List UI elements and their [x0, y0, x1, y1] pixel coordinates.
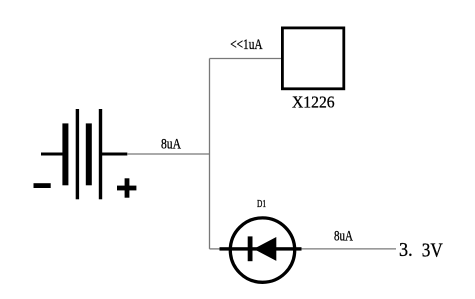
wire diode to 3.3V: [301, 248, 397, 250]
battery plus label: [117, 178, 136, 197]
svg-text:D1: D1: [257, 199, 266, 210]
svg-text:3.: 3.: [399, 239, 413, 261]
battery left lead: [41, 153, 64, 156]
IC U1 X1226 box: [282, 28, 343, 89]
battery cell plate (thin tall 2): [99, 109, 102, 199]
battery right lead: [102, 153, 127, 156]
battery cell plate (thick short 2): [86, 123, 92, 185]
battery cell plate (thick short 1): [62, 123, 68, 185]
wire battery to junction: [127, 153, 210, 155]
svg-text:<<1uA: <<1uA: [230, 37, 263, 53]
svg-text:8uA: 8uA: [334, 228, 353, 244]
svg-text:3V: 3V: [422, 239, 443, 261]
wire to X1226: [210, 58, 282, 60]
battery cell plate (thin tall 1): [76, 109, 79, 199]
battery minus label: [34, 183, 51, 188]
svg-text:8uA: 8uA: [161, 137, 181, 153]
wire junction to diode: [210, 248, 221, 250]
wire vertical bus: [209, 59, 211, 249]
diode D1: [220, 218, 302, 282]
svg-text:X1226: X1226: [292, 93, 335, 112]
net label 3.3V: [399, 239, 443, 261]
